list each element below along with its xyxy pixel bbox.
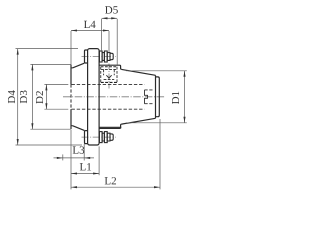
bore hidden line top (72, 83, 145, 85)
svg-text:L1: L1 (79, 161, 91, 173)
dimension D2 (44, 84, 68, 109)
hub rim top (99, 65, 122, 69)
pin tip bottom (110, 134, 113, 140)
svg-text:D1: D1 (170, 91, 182, 104)
pin head bottom (85, 131, 88, 144)
radial hole centerline top (108, 64, 110, 89)
svg-text:D5: D5 (105, 4, 119, 16)
washer bottom (99, 132, 102, 143)
hub taper top (122, 69, 156, 75)
svg-text:D4: D4 (6, 90, 18, 104)
tapped hole top: bottom edge (101, 81, 117, 83)
hub taper bottom (122, 118, 156, 124)
nut top (102, 53, 104, 61)
sleeve top step (71, 67, 73, 69)
dimension L3 (54, 144, 95, 161)
washer top (99, 51, 102, 62)
main centerline (63, 96, 165, 98)
dimension D5 (102, 18, 118, 66)
left sleeve face (70, 64, 72, 129)
pin centerline top (82, 56, 116, 58)
pin centerline bottom (82, 136, 116, 138)
flange (88, 49, 100, 145)
sleeve bottom step (71, 125, 73, 127)
svg-text:L2: L2 (104, 175, 116, 187)
dimension D3 (30, 64, 71, 129)
hub rim bottom (99, 124, 122, 128)
center hole mark (145, 90, 155, 104)
tapped hole top: drill cone (106, 75, 111, 78)
svg-text:D2: D2 (34, 91, 46, 104)
svg-text:L3: L3 (72, 145, 85, 157)
dimension L2 (71, 119, 160, 189)
dimension D1 (126, 71, 187, 123)
dimension D4 (16, 49, 83, 145)
svg-text:L4: L4 (84, 19, 97, 31)
bore hidden line bottom (72, 108, 145, 110)
pin tip top (110, 53, 113, 59)
sleeve cone top (73, 63, 85, 68)
tapped hole top: outer dashed (101, 67, 117, 83)
dimension L1 (71, 146, 99, 175)
sleeve cone bottom (73, 126, 85, 131)
svg-text:D3: D3 (18, 90, 30, 104)
pin head top (85, 50, 88, 63)
hub cavity inner wall (sectioned bottom half) (99, 127, 121, 128)
nut bottom (102, 133, 104, 141)
shaft stub (156, 77, 160, 117)
dimension L4 (71, 31, 109, 65)
hub step face (155, 75, 157, 118)
